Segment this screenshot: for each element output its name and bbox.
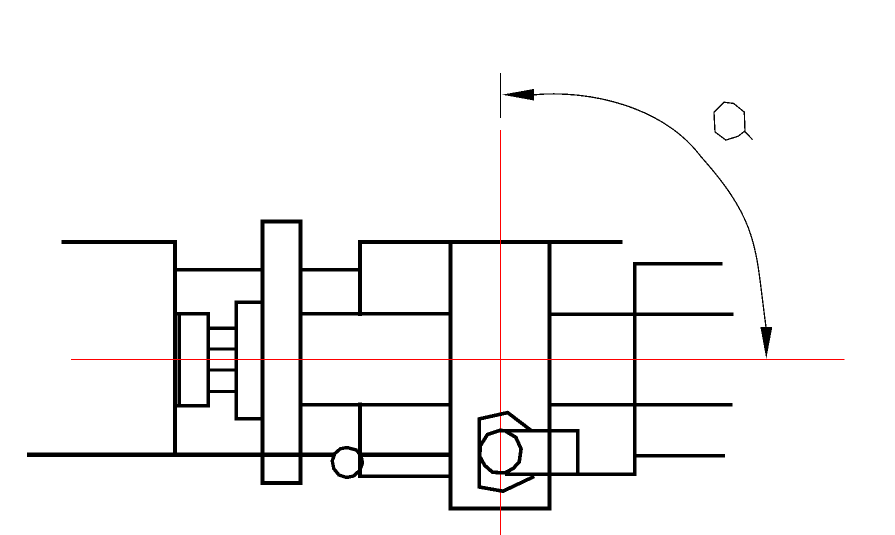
flange right xyxy=(299,219,303,485)
label Q octagon xyxy=(714,102,745,140)
label Q tail xyxy=(745,131,753,139)
top line center xyxy=(358,240,622,244)
block left xyxy=(449,240,453,511)
right line y455 xyxy=(633,454,725,457)
plate rect2 bottom xyxy=(235,417,263,420)
flange top xyxy=(260,219,302,223)
flange left xyxy=(260,219,264,485)
shank top xyxy=(500,429,578,433)
nut circle (pin) xyxy=(332,448,362,478)
arrowhead left xyxy=(502,89,534,101)
vertical V1 xyxy=(173,240,177,456)
shank bottom xyxy=(505,472,637,476)
right line y263 xyxy=(633,262,722,265)
bolt circle xyxy=(480,430,521,473)
vertical x360 upper xyxy=(358,240,362,316)
line y270 right xyxy=(299,268,362,271)
arrowhead down xyxy=(760,327,772,359)
thread rung 1 xyxy=(207,327,238,330)
bore line y404 xyxy=(299,403,453,406)
centerline vertical (red) xyxy=(500,130,502,535)
right line y404 xyxy=(548,403,733,406)
flange bottom xyxy=(260,481,302,485)
plate rect2 top xyxy=(235,301,263,304)
centerline horizontal (red) xyxy=(71,359,845,361)
thread rung 2 xyxy=(207,347,238,350)
rod bottom line xyxy=(358,475,452,478)
top-left line L1 xyxy=(62,240,177,244)
hub rect1 left xyxy=(177,312,180,407)
thread rung 4 xyxy=(207,390,238,393)
right vertical x635 xyxy=(633,262,637,476)
block bottom xyxy=(449,506,552,510)
plate rect2 left xyxy=(234,301,237,421)
dimension extension tick xyxy=(500,73,502,118)
hub rect1 right xyxy=(206,312,209,407)
shank right xyxy=(576,429,580,476)
vertical x360 lower xyxy=(358,403,362,479)
block right xyxy=(548,240,552,511)
right line y314 xyxy=(548,313,734,316)
bolt head hexagon xyxy=(479,413,534,492)
line y270 left xyxy=(173,268,265,271)
hub rect1 bottom xyxy=(173,404,210,407)
hub rect1 top xyxy=(173,312,210,315)
long bottom line xyxy=(27,453,451,457)
dimension arc xyxy=(534,94,766,327)
thread rung 3 xyxy=(207,368,238,371)
bore line y314 xyxy=(299,312,453,315)
